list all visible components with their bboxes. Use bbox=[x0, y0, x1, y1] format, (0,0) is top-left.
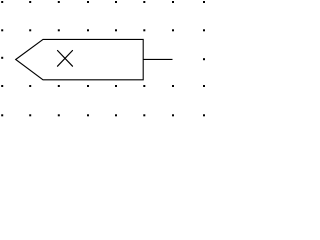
wire bbox=[143, 58, 172, 60]
label text "X" (stroke font) bbox=[58, 51, 73, 67]
global label (pentagon outline, points left) bbox=[16, 39, 144, 79]
